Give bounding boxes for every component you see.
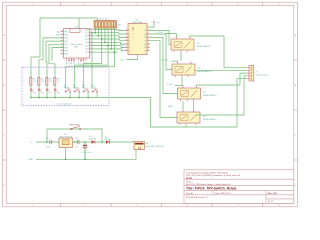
U1 right pins bbox=[90, 30, 93, 53]
svg-text:PB3: PB3 bbox=[64, 51, 68, 53]
svg-text:2: 2 bbox=[190, 62, 191, 64]
wire RN1 column 7 to S1 bbox=[66, 28, 115, 89]
wire K2 to K3 chain bbox=[181, 77, 183, 85]
svg-text:UC1: UC1 bbox=[85, 33, 89, 35]
U3 pin name labels bbox=[129, 30, 131, 52]
switch S3 bbox=[82, 85, 89, 92]
wire RN1 column 6 bbox=[110, 28, 112, 49]
resistor R2 bbox=[38, 77, 45, 85]
capacitor C6 bbox=[75, 138, 79, 148]
switch S1 bbox=[64, 85, 71, 92]
frame zone numbers bbox=[4, 4, 297, 207]
svg-text:2: 2 bbox=[189, 37, 190, 39]
wire LED bottoms to rail bbox=[31, 91, 55, 97]
power flag +5V at U3 bbox=[153, 21, 160, 23]
svg-text:O6: O6 bbox=[144, 47, 146, 49]
label +5 rel K2 bbox=[161, 60, 168, 62]
wire K3 to K4 chain b bbox=[193, 101, 195, 109]
wire K3 to K4 chain a bbox=[182, 101, 184, 109]
svg-text:1: 1 bbox=[181, 110, 182, 112]
wire U1 left pin to R4 bbox=[49, 44, 64, 77]
wire VCC top rail bbox=[40, 18, 98, 21]
wire U1 left pin to R2 bbox=[39, 38, 64, 77]
LED D6 bbox=[54, 89, 61, 95]
svg-text:O2: O2 bbox=[144, 34, 146, 36]
U3 VCC wire bbox=[147, 23, 154, 28]
svg-text:in7: in7 bbox=[122, 51, 124, 53]
wire U1 VCC riser bbox=[78, 18, 80, 29]
IC U3 ULN2003 body bbox=[128, 19, 147, 54]
svg-text:UC0: UC0 bbox=[85, 29, 89, 31]
U1 top-left net labels bbox=[56, 30, 61, 36]
svg-text:Ant: Ant bbox=[57, 30, 60, 33]
wire K1 coil +5 bbox=[165, 34, 177, 37]
svg-text:I7: I7 bbox=[129, 51, 131, 53]
wire common rail in box bbox=[31, 97, 150, 99]
svg-text:1: 1 bbox=[176, 62, 177, 64]
svg-text:I4: I4 bbox=[129, 41, 131, 43]
U1 bottom pins bbox=[67, 58, 87, 61]
LED D4 bbox=[38, 89, 45, 95]
svg-text:HE3621A0510: HE3621A0510 bbox=[197, 45, 211, 48]
resistor R4 bbox=[54, 77, 61, 85]
svg-text:PB4: PB4 bbox=[64, 54, 68, 56]
U1 left pins bbox=[61, 32, 64, 54]
svg-text:RN1_4k7: RN1_4k7 bbox=[100, 19, 110, 21]
svg-text:MCP1700-33: MCP1700-33 bbox=[60, 137, 73, 139]
wire RN1 column 3 to S3 bbox=[84, 28, 102, 89]
svg-text:UC7: UC7 bbox=[85, 52, 89, 54]
frame zone ticks bottom bbox=[61, 203, 263, 206]
resistor R3 bbox=[46, 77, 53, 85]
svg-text:ULN2003A: ULN2003A bbox=[132, 21, 143, 24]
svg-text:I5: I5 bbox=[129, 44, 131, 46]
svg-text:PD6: PD6 bbox=[64, 41, 68, 43]
resistor network RN1 bbox=[94, 19, 122, 28]
U3 GND bottom wire bbox=[120, 55, 138, 62]
wire K4 output to X1 pin4 bbox=[196, 76, 247, 115]
svg-text:PD5: PD5 bbox=[64, 38, 68, 40]
frame outer border bbox=[3, 2, 298, 207]
U1 left pin name labels bbox=[64, 31, 68, 55]
wire RN1 column 4 bbox=[104, 28, 106, 42]
U3 pin number marks bbox=[125, 30, 149, 50]
svg-text:HE3621A0510: HE3621A0510 bbox=[203, 118, 217, 121]
svg-text:Title: PiPO4_TRV-SwItCh_Relais: Title: PiPO4_TRV-SwItCh_Relais bbox=[186, 187, 237, 191]
svg-text:+5_Rel: +5_Rel bbox=[166, 84, 173, 86]
svg-text:I6: I6 bbox=[129, 47, 131, 49]
wire K3 output to X1 pin3 bbox=[197, 73, 247, 86]
wire K1 to K2 chain bbox=[180, 52, 182, 61]
wire U3 out4 to K4 bbox=[150, 41, 177, 118]
U1 bottom rotated pin labels bbox=[67, 62, 87, 65]
svg-text:Lcd_Int_Backof: Lcd_Int_Backof bbox=[57, 102, 72, 105]
svg-text:Rev: 5.99: Rev: 5.99 bbox=[268, 193, 278, 195]
wire U1 right pin rows to U3 bbox=[93, 30, 125, 53]
wire bypass loop bbox=[47, 129, 102, 142]
frame zone ticks top bbox=[61, 2, 263, 5]
label +5 rel K3 bbox=[166, 84, 173, 86]
svg-text:screwterminal: screwterminal bbox=[256, 73, 269, 76]
svg-text:+5_Rel: +5_Rel bbox=[161, 60, 168, 62]
svg-text:BLINK: BLINK bbox=[186, 178, 193, 180]
junction dots on pin rows bbox=[91, 32, 115, 53]
junction dots PSU bbox=[46, 141, 103, 143]
LED D5 bbox=[46, 89, 53, 95]
svg-text:1: 1 bbox=[175, 37, 176, 39]
relay K1 bbox=[171, 37, 211, 52]
wire VCC drop to left bundle bbox=[31, 18, 40, 77]
frame inner border bbox=[6, 6, 294, 204]
svg-text:UC4: UC4 bbox=[85, 42, 89, 44]
svg-text:C7 4u7-Pol: C7 4u7-Pol bbox=[81, 152, 92, 154]
wire RN1 column 2 bbox=[98, 28, 100, 36]
wire U1 left pin stub run bbox=[52, 48, 64, 61]
resistor R1 bbox=[30, 77, 37, 85]
svg-text:1N4007: 1N4007 bbox=[89, 139, 97, 141]
svg-text:I1: I1 bbox=[129, 30, 131, 32]
junction dots GND rail bbox=[65, 159, 86, 161]
frame zone ticks sides bbox=[3, 60, 298, 160]
svg-text:UC3: UC3 bbox=[85, 39, 89, 41]
title block bbox=[184, 170, 294, 204]
svg-text:I3: I3 bbox=[129, 37, 131, 39]
svg-text:O7: O7 bbox=[144, 51, 146, 53]
wire RN1 column 5 to S2 bbox=[75, 28, 108, 89]
svg-text:O4: O4 bbox=[144, 41, 146, 43]
wire battery gnd bbox=[135, 150, 137, 160]
svg-text:Date: 2020-12-17: Date: 2020-12-17 bbox=[215, 192, 231, 195]
svg-text:PB2: PB2 bbox=[64, 47, 68, 49]
label GND chain bbox=[168, 106, 173, 108]
svg-text:B_Up: B_Up bbox=[64, 87, 70, 89]
LED D3 bbox=[30, 89, 37, 95]
wire K4 gnd to rail bbox=[185, 125, 187, 127]
svg-text:I2: I2 bbox=[129, 34, 131, 36]
svg-text:PD7: PD7 bbox=[64, 44, 68, 46]
power section input label bbox=[31, 142, 34, 144]
svg-text:2: 2 bbox=[195, 110, 196, 112]
regulator U2 bbox=[59, 134, 73, 147]
wire U3 out1 to K1 bbox=[150, 30, 171, 44]
wire U3 out2 to K2 bbox=[150, 34, 172, 70]
svg-text:UC2: UC2 bbox=[85, 36, 89, 38]
svg-text:GND: GND bbox=[56, 35, 61, 37]
svg-text:BY500: BY500 bbox=[105, 139, 112, 141]
U3 left pins bbox=[125, 30, 128, 50]
svg-text:2: 2 bbox=[195, 86, 196, 88]
wire switch bottoms to rail bbox=[70, 92, 97, 97]
U1 right pin name labels bbox=[85, 29, 89, 54]
svg-text:PB0: PB0 bbox=[64, 31, 68, 33]
relay K4 bbox=[177, 109, 217, 125]
IC U1 ATmega body bbox=[64, 27, 90, 58]
U3 blue pin decorations bbox=[122, 44, 124, 53]
svg-text:O1: O1 bbox=[144, 30, 146, 32]
svg-text:File: PiPo_TRV-Switch_library_: File: PiPo_TRV-Switch_library_4_kanal_re… bbox=[186, 183, 230, 186]
svg-text:B_Lf: B_Lf bbox=[82, 87, 87, 89]
svg-text:Sheet: /: Sheet: / bbox=[186, 180, 193, 183]
diode D1 bbox=[89, 136, 97, 144]
dashed LCD panel box bbox=[22, 67, 109, 106]
wire R4 to LED4 bbox=[54, 85, 56, 88]
GND rail label bbox=[29, 159, 34, 161]
capacitor C7 polarized bbox=[81, 142, 92, 159]
switch S2 bbox=[73, 85, 80, 92]
svg-text:O3: O3 bbox=[144, 37, 146, 39]
capacitor C5 bbox=[46, 138, 52, 148]
wire R1 to LED1 bbox=[30, 85, 32, 88]
wire K2 +5 stub bbox=[171, 60, 178, 62]
RN1 pin number marks bbox=[95, 28, 116, 30]
svg-text:+5_Rel: +5_Rel bbox=[156, 32, 163, 34]
svg-text:Id: 1/1: Id: 1/1 bbox=[268, 201, 274, 203]
label +5 rel K1 bbox=[156, 32, 163, 34]
U1 pin number marks bbox=[61, 29, 92, 53]
battery B1 bbox=[134, 142, 165, 150]
svg-text:PiPo_TRV_Switch_ESP8266_homema: PiPo_TRV_Switch_ESP8266_homematic_4_kana… bbox=[186, 174, 241, 177]
svg-text:PB1: PB1 bbox=[64, 35, 68, 37]
diode D2 bbox=[105, 137, 112, 144]
wire K1 output to X1 pin1 bbox=[190, 36, 247, 68]
wire RN1 column 1 bbox=[94, 28, 96, 33]
svg-text:HE3621A0510: HE3621A0510 bbox=[203, 94, 217, 97]
svg-text:O5: O5 bbox=[144, 44, 146, 46]
wire R3 to LED3 bbox=[46, 85, 48, 88]
relay pin number marks bbox=[175, 37, 196, 112]
U3 right pins bbox=[147, 30, 150, 50]
wire U2 gnd bbox=[65, 148, 67, 160]
svg-text:HOLDER_LIR2032: HOLDER_LIR2032 bbox=[146, 146, 165, 148]
switch S4 bbox=[91, 85, 98, 92]
wire GND run bottom bbox=[150, 79, 246, 127]
svg-text:in6: in6 bbox=[122, 47, 124, 49]
svg-text:in5: in5 bbox=[122, 44, 124, 46]
svg-text:GND: GND bbox=[168, 106, 173, 108]
junction dots on rail bbox=[30, 97, 89, 99]
relay K3 bbox=[178, 85, 218, 101]
svg-text:UC6: UC6 bbox=[85, 49, 89, 51]
title block texts bbox=[186, 171, 278, 203]
U1 bottom no-connect marks bbox=[68, 60, 84, 62]
wire U3 out3 to K3 bbox=[150, 37, 178, 93]
svg-text:GND: GND bbox=[29, 159, 34, 161]
svg-text:UC5: UC5 bbox=[85, 45, 89, 47]
wire GND rail bbox=[36, 158, 136, 160]
wire K3 +5 stub bbox=[175, 84, 183, 86]
wire S4 riser bbox=[91, 33, 93, 89]
wire K2 output to X1 pin2 bbox=[195, 69, 247, 71]
svg-text:+5V: +5V bbox=[73, 127, 77, 129]
svg-text:Size: A4: Size: A4 bbox=[186, 192, 194, 195]
wire U1 left pin to R3 bbox=[46, 41, 64, 77]
svg-text:C:\Users\docs\kicad\projects\P: C:\Users\docs\kicad\projects\PiPo_TRV_Sw… bbox=[186, 171, 228, 174]
svg-text:KiCad E.D.A. kicad 5.1.9: KiCad E.D.A. kicad 5.1.9 bbox=[186, 196, 209, 199]
svg-text:B_Dn: B_Dn bbox=[73, 87, 79, 89]
jumper JP1 on bypass bbox=[69, 124, 81, 130]
wire R2 to LED2 bbox=[38, 85, 40, 88]
svg-text:Mega_Steno: Mega_Steno bbox=[71, 43, 84, 46]
connector X1 bbox=[247, 66, 269, 82]
svg-text:1: 1 bbox=[182, 86, 183, 88]
relay K2 bbox=[172, 61, 212, 77]
svg-text:B_Rt: B_Rt bbox=[91, 86, 96, 89]
wire main 5V rail bbox=[36, 141, 134, 143]
